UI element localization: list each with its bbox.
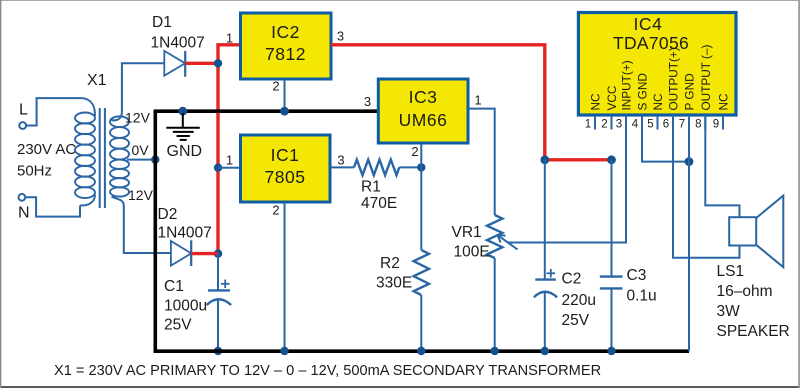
svg-text:3: 3 — [616, 119, 622, 131]
transformer X1 primary winding — [75, 98, 95, 205]
IC2 pin 2 wire to ground bus — [284, 80, 286, 112]
junction 0V tap on ground bus — [151, 155, 159, 163]
junction dot rail at D1 — [214, 59, 222, 67]
svg-text:X1 = 230V AC PRIMARY TO 12V –: X1 = 230V AC PRIMARY TO 12V – 0 – 12V, 5… — [54, 363, 601, 379]
svg-text:4: 4 — [632, 119, 639, 131]
IC4 pin numbers 1-9 — [585, 119, 719, 131]
svg-text:7812: 7812 — [265, 44, 306, 64]
junction IC2 pin 2 on ground bus — [280, 107, 289, 116]
resistor R1 — [330, 160, 421, 176]
svg-text:1: 1 — [226, 153, 233, 168]
VR1 wiper arrow — [498, 235, 518, 250]
svg-text:3W: 3W — [717, 303, 741, 320]
svg-text:NC: NC — [717, 93, 731, 111]
transformer X1 core — [100, 108, 105, 208]
svg-text:9: 9 — [713, 119, 719, 131]
wire 12V rail (red) IC2 pin 3 to IC4 VCC — [331, 45, 612, 160]
label R2 330E — [376, 255, 412, 291]
junction GND tap on bus — [178, 107, 187, 116]
svg-text:25V: 25V — [164, 317, 192, 334]
svg-text:16–ohm: 16–ohm — [717, 283, 773, 300]
junction dot rail at IC1 pin 1 — [214, 164, 222, 172]
svg-text:1: 1 — [585, 119, 591, 131]
junction R2 on bottom bus — [417, 347, 425, 355]
capacitor C1 — [164, 254, 231, 351]
svg-text:220u: 220u — [562, 292, 596, 309]
IC4 pin stubs — [595, 116, 723, 130]
terminal L — [19, 102, 28, 129]
svg-text:UM66: UM66 — [399, 110, 448, 130]
junction C1 on bottom bus — [214, 347, 222, 355]
svg-text:OUTPUT (–): OUTPUT (–) — [699, 44, 713, 110]
svg-text:X1: X1 — [87, 72, 107, 89]
label LS1 16-ohm 3W SPEAKER — [717, 263, 790, 340]
junction node R1/IC3.2/R2 — [417, 163, 425, 171]
svg-text:D1: D1 — [152, 14, 172, 31]
svg-text:2: 2 — [272, 203, 279, 218]
svg-text:3: 3 — [337, 152, 344, 167]
svg-text:IC1: IC1 — [271, 145, 300, 165]
label 230V AC 50Hz — [17, 141, 76, 180]
svg-text:GND: GND — [167, 143, 203, 160]
svg-text:1N4007: 1N4007 — [158, 225, 212, 242]
wire secondary 12V bottom tap to D2 anode — [112, 197, 171, 254]
capacitor C3 — [600, 160, 657, 351]
svg-text:2: 2 — [601, 119, 607, 131]
svg-text:NC: NC — [651, 93, 665, 111]
op-amp IC1 7805 regulator — [241, 135, 331, 202]
junction dot rail at D2 cathode — [214, 249, 222, 257]
svg-text:INPUT(+): INPUT(+) — [620, 60, 634, 110]
svg-text:L: L — [19, 102, 28, 119]
svg-text:P GND: P GND — [683, 73, 697, 110]
svg-text:2: 2 — [411, 144, 418, 159]
svg-text:7: 7 — [679, 119, 685, 131]
transformer X1 secondary winding — [110, 116, 129, 196]
ground bus left and bottom (black) — [155, 110, 689, 352]
svg-text:IC4: IC4 — [633, 14, 662, 34]
label VR1 100E — [452, 224, 490, 261]
op-amp IC4 TDA7056 amplifier — [578, 13, 736, 116]
svg-text:5: 5 — [647, 119, 653, 131]
svg-text:SPEAKER: SPEAKER — [717, 323, 790, 340]
terminal N — [18, 194, 30, 222]
wire D2 cathode to rail (red) — [191, 252, 218, 255]
svg-text:S GND: S GND — [636, 73, 650, 110]
svg-text:470E: 470E — [361, 195, 397, 212]
svg-text:12V: 12V — [128, 187, 154, 203]
junction VR1 on bottom bus — [491, 347, 499, 355]
wire D1 cathode to unregulated rail (red) — [185, 62, 218, 65]
svg-text:2: 2 — [272, 79, 279, 94]
label R1 470E — [361, 179, 397, 213]
junction S GND / P GND — [685, 157, 694, 166]
wire secondary 12V top tap to D1 anode — [112, 63, 165, 120]
diode D2 — [158, 206, 212, 266]
svg-text:N: N — [18, 205, 30, 222]
svg-text:12V: 12V — [125, 110, 151, 126]
wire 0V center tap to ground bus — [127, 159, 155, 161]
potentiometer VR1 — [487, 215, 502, 351]
op-amp IC2 7812 regulator — [241, 13, 332, 79]
junction 12V rail at IC4 VCC — [607, 155, 616, 164]
svg-text:230V AC: 230V AC — [17, 141, 76, 158]
wire unregulated DC rail (red) to IC2 pin 1 and down to D2 — [218, 45, 241, 254]
wire IC4 pin 8 OUTPUT- to speaker — [705, 115, 739, 217]
IC1 pin 1 wire — [218, 167, 241, 169]
svg-text:C2: C2 — [562, 270, 582, 287]
wire L to transformer primary — [26, 98, 81, 125]
svg-text:D2: D2 — [158, 206, 178, 223]
IC3 pin 2 wire to node — [420, 144, 422, 168]
junction IC1 pin 2 on bottom bus — [280, 347, 288, 355]
svg-text:R1: R1 — [361, 179, 381, 196]
speaker LS1 — [729, 196, 783, 268]
resistor R2 — [414, 167, 429, 351]
svg-text:1000u: 1000u — [164, 298, 207, 315]
svg-text:IC3: IC3 — [409, 87, 438, 107]
wire IC3 pin 1 to VR1 — [468, 109, 495, 215]
svg-text:R2: R2 — [380, 255, 400, 272]
svg-text:3: 3 — [337, 29, 344, 44]
svg-text:0.1u: 0.1u — [627, 287, 657, 304]
diode D1 — [151, 14, 205, 77]
svg-text:VCC: VCC — [605, 85, 619, 110]
wire IC4 pin 6 OUTPUT+ to speaker — [673, 115, 740, 258]
capacitor C2 — [534, 160, 596, 351]
svg-text:C1: C1 — [164, 278, 184, 295]
ground symbol — [166, 113, 200, 140]
svg-text:VR1: VR1 — [452, 224, 482, 241]
svg-text:25V: 25V — [562, 312, 590, 329]
ground bus top (black) — [155, 109, 378, 113]
svg-text:7805: 7805 — [265, 167, 306, 187]
svg-text:OUTPUT(+): OUTPUT(+) — [667, 47, 681, 110]
svg-text:NC: NC — [589, 93, 603, 111]
junction C3 on bottom bus — [607, 347, 615, 355]
svg-text:330E: 330E — [376, 274, 412, 291]
svg-text:100E: 100E — [454, 244, 490, 261]
svg-text:LS1: LS1 — [717, 263, 745, 280]
wire IC4 pin 4 S GND to pin 7 — [642, 115, 689, 162]
svg-text:C3: C3 — [627, 267, 647, 284]
svg-text:1: 1 — [226, 31, 233, 46]
svg-text:50Hz: 50Hz — [17, 162, 52, 179]
svg-text:1: 1 — [474, 93, 481, 108]
svg-text:8: 8 — [695, 119, 701, 131]
junction 12V rail at C2 — [540, 155, 549, 164]
svg-text:0V: 0V — [132, 142, 150, 158]
wire N to transformer primary — [25, 197, 80, 216]
wire IC4 pin 7 P GND to bottom bus — [688, 115, 690, 351]
svg-text:3: 3 — [364, 94, 371, 109]
svg-text:IC2: IC2 — [271, 22, 300, 42]
svg-text:6: 6 — [663, 119, 669, 131]
op-amp IC3 UM66 melody IC — [378, 79, 468, 143]
svg-text:1N4007: 1N4007 — [151, 35, 205, 52]
wire VR1 wiper to IC4 pin 3 INPUT — [508, 115, 626, 243]
IC1 pin 2 wire to bottom bus — [284, 203, 286, 352]
junction C2 on bottom bus — [541, 347, 549, 355]
